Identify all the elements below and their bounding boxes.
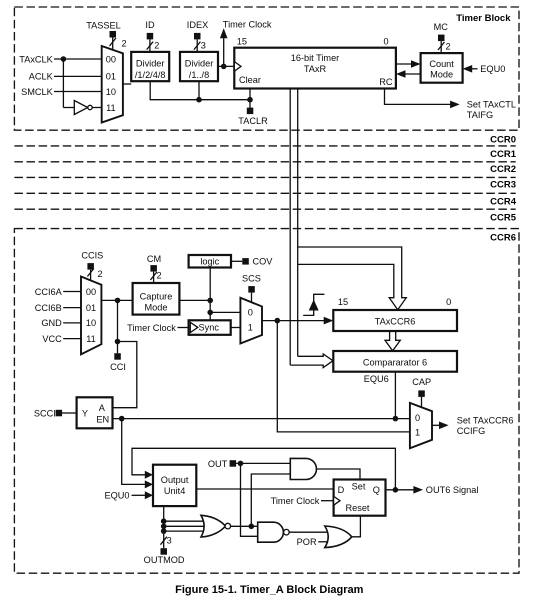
svg-text:CCR2: CCR2 (490, 164, 516, 175)
svg-text:ACLK: ACLK (29, 72, 54, 82)
svg-text:Output: Output (161, 475, 189, 485)
svg-text:CCR0: CCR0 (490, 135, 516, 146)
svg-text:11: 11 (86, 334, 96, 344)
svg-text:16-bit Timer: 16-bit Timer (291, 53, 340, 63)
svg-text:0: 0 (248, 308, 253, 318)
svg-text:Timer Clock: Timer Clock (271, 496, 320, 506)
svg-text:Figure 15-1. Timer_A Block Dia: Figure 15-1. Timer_A Block Diagram (175, 584, 364, 596)
svg-text:Capture: Capture (140, 291, 173, 301)
svg-text:TAIFG: TAIFG (467, 110, 493, 120)
svg-text:CAP: CAP (412, 377, 431, 387)
svg-text:ID: ID (145, 20, 155, 30)
svg-text:SCCI: SCCI (34, 408, 56, 418)
svg-text:CCIFG: CCIFG (457, 426, 486, 436)
svg-text:01: 01 (86, 303, 96, 313)
svg-text:Timer Clock: Timer Clock (127, 323, 176, 333)
svg-text:00: 00 (86, 287, 96, 297)
svg-text:TAxCLK: TAxCLK (19, 54, 53, 64)
svg-text:Divider: Divider (136, 58, 165, 68)
svg-text:Y: Y (82, 408, 88, 418)
svg-text:/1/2/4/8: /1/2/4/8 (135, 70, 166, 80)
svg-text:OUT: OUT (208, 459, 228, 469)
svg-text:EN: EN (96, 415, 109, 425)
svg-text:logic: logic (200, 257, 219, 267)
svg-text:2: 2 (121, 38, 126, 48)
svg-text:10: 10 (86, 318, 96, 328)
svg-text:CCR1: CCR1 (490, 149, 517, 160)
svg-text:TAxCCR6: TAxCCR6 (375, 316, 416, 326)
svg-text:Mode: Mode (430, 69, 453, 79)
svg-text:1: 1 (248, 323, 253, 333)
svg-text:RC: RC (379, 77, 393, 87)
svg-text:1: 1 (415, 427, 420, 437)
svg-text:/1../8: /1../8 (189, 70, 209, 80)
svg-text:Reset: Reset (345, 503, 369, 513)
svg-text:SMCLK: SMCLK (21, 87, 54, 97)
svg-text:2: 2 (156, 271, 161, 281)
svg-text:2: 2 (445, 41, 450, 51)
svg-text:0: 0 (446, 297, 451, 307)
svg-text:10: 10 (106, 87, 116, 97)
svg-text:Mode: Mode (145, 303, 168, 313)
svg-text:11: 11 (106, 103, 116, 113)
svg-text:CCR4: CCR4 (490, 197, 517, 208)
svg-text:CCI: CCI (110, 362, 126, 372)
svg-text:SCS: SCS (242, 273, 261, 283)
svg-text:Count: Count (429, 59, 454, 69)
svg-text:0: 0 (383, 37, 388, 47)
svg-text:Unit4: Unit4 (164, 486, 185, 496)
svg-text:00: 00 (106, 54, 116, 64)
svg-text:OUT6 Signal: OUT6 Signal (426, 485, 479, 495)
svg-text:0: 0 (415, 413, 420, 423)
svg-text:CCI6B: CCI6B (35, 303, 62, 313)
svg-text:TASSEL: TASSEL (86, 20, 121, 30)
svg-text:D: D (338, 485, 345, 495)
svg-text:15: 15 (338, 297, 348, 307)
svg-text:Clear: Clear (239, 75, 261, 85)
svg-text:Timer Block: Timer Block (456, 13, 511, 24)
svg-text:2: 2 (154, 40, 159, 50)
svg-text:Timer Clock: Timer Clock (223, 20, 272, 30)
svg-text:Set: Set (352, 481, 366, 491)
svg-text:3: 3 (167, 535, 172, 545)
svg-text:Set TAxCCR6: Set TAxCCR6 (457, 416, 514, 426)
svg-text:COV: COV (253, 257, 274, 267)
svg-text:Set TAxCTL: Set TAxCTL (467, 100, 516, 110)
svg-text:CCR5: CCR5 (490, 213, 517, 224)
svg-text:Divider: Divider (185, 58, 214, 68)
svg-text:GND: GND (41, 318, 62, 328)
svg-text:VCC: VCC (42, 334, 62, 344)
svg-text:MC: MC (434, 22, 449, 32)
svg-text:15: 15 (237, 37, 247, 47)
svg-text:Q: Q (373, 485, 380, 495)
svg-text:Sync: Sync (199, 323, 220, 333)
svg-text:POR: POR (297, 537, 317, 547)
svg-text:EQU0: EQU0 (480, 64, 505, 74)
svg-text:2: 2 (97, 269, 102, 279)
svg-text:CM: CM (147, 254, 161, 264)
svg-text:CCR3: CCR3 (490, 180, 516, 191)
svg-text:EQU6: EQU6 (364, 374, 389, 384)
svg-text:TAxR: TAxR (304, 64, 327, 74)
svg-text:EQU0: EQU0 (104, 491, 129, 501)
svg-text:CCI6A: CCI6A (35, 287, 63, 297)
svg-text:A: A (99, 403, 106, 413)
svg-text:CCIS: CCIS (81, 250, 103, 260)
svg-text:Compararator 6: Compararator 6 (363, 357, 427, 367)
svg-text:01: 01 (106, 72, 116, 82)
svg-text:CCR6: CCR6 (490, 233, 516, 244)
svg-text:IDEX: IDEX (187, 20, 208, 30)
svg-text:3: 3 (201, 40, 206, 50)
svg-text:TACLR: TACLR (238, 116, 268, 126)
svg-text:OUTMOD: OUTMOD (144, 555, 185, 565)
